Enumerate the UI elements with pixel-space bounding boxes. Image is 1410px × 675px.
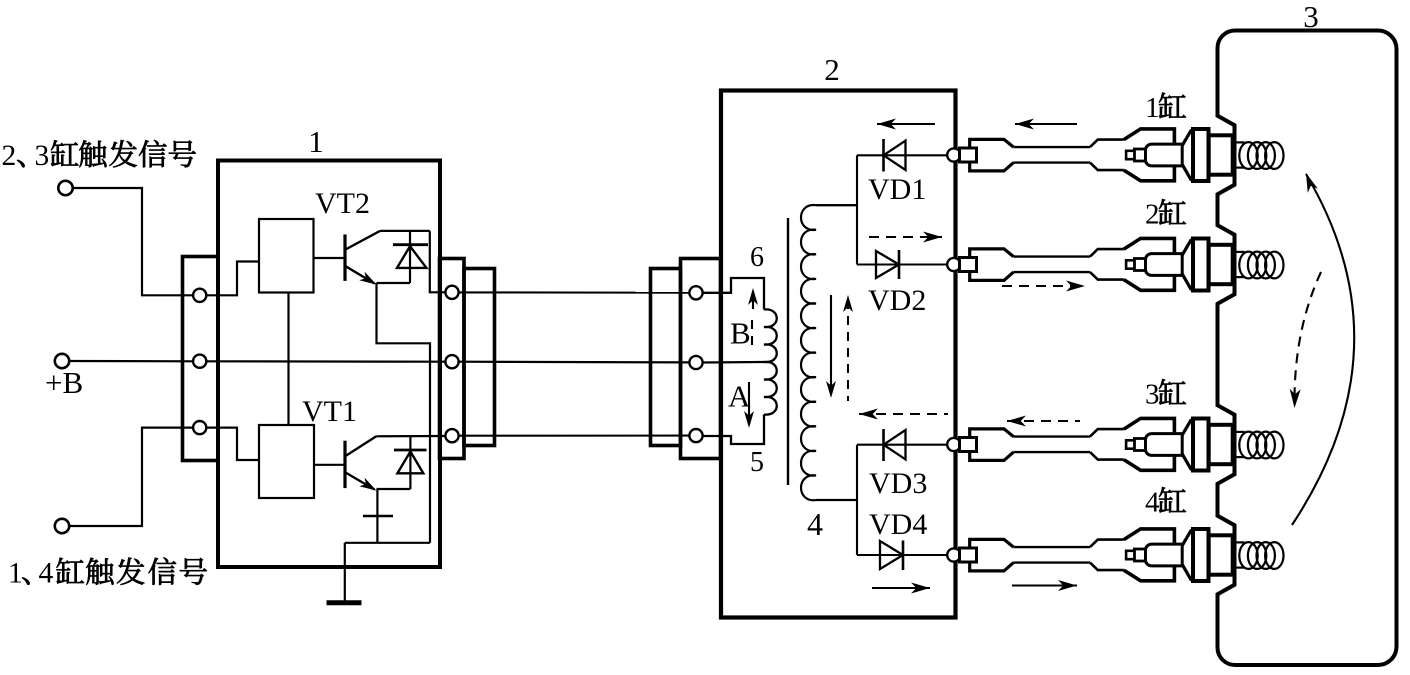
svg-text:3: 3 [35, 140, 50, 172]
HT cable boot coil side (cyl 3) [970, 429, 1014, 461]
HT cable (cyl 2) [1014, 255, 1091, 257]
HT cable (cyl 1) [1014, 146, 1091, 148]
svg-text:2: 2 [2, 140, 17, 172]
wire to ground [344, 543, 346, 601]
diode VD2 [898, 250, 901, 279]
svg-text:6: 6 [750, 242, 764, 273]
connector on left of block 1 [183, 257, 219, 461]
svg-text:B: B [730, 316, 751, 351]
spark plug seat washer (cyl 2) [1209, 245, 1233, 284]
spark plug boot (cyl 4) [1124, 529, 1175, 581]
spark plug insulator flare (cyl 4) [1182, 530, 1191, 581]
spark plug hex body (cyl 2) [1193, 239, 1209, 291]
spark plug terminal stem (cyl 1) [1145, 144, 1182, 166]
dashed segment below B arrow [751, 320, 753, 352]
primary winding: top lead [703, 278, 764, 310]
wire secondary bottom to VD junction [822, 499, 857, 501]
spring / thread symbol (cyl 2) [1235, 251, 1245, 253]
current arrow solid left (to VD1) [877, 123, 935, 125]
wire from 1,4 trigger terminal to connector pin 3 [69, 428, 194, 526]
transistor VT2 [343, 234, 346, 281]
current arrow on cable (cyl 2) [1002, 285, 1085, 287]
cable step (cyl 3) [1090, 429, 1124, 437]
terminal plug square (cyl 1) [960, 148, 977, 162]
current arrow on cable (cyl 4) [1012, 584, 1077, 586]
svg-text:3: 3 [1145, 379, 1160, 411]
current arrow on cable (cyl 1) [1015, 123, 1077, 125]
connector pair right of block 1 [440, 259, 465, 459]
spark plug terminal stem (cyl 2) [1145, 254, 1182, 276]
svg-text:4: 4 [807, 506, 823, 542]
svg-text:2: 2 [1145, 199, 1160, 231]
wire VT1 collector to pin [376, 435, 445, 437]
engine rotation arrow (solid arc) [1292, 174, 1354, 525]
diode across VT2 C-E [409, 231, 411, 283]
transistor VT1 [343, 441, 346, 488]
arrow down (A direction) [748, 382, 750, 424]
spark plug insulator flare (cyl 2) [1182, 239, 1191, 290]
secondary current arrow (dashed, up) [847, 300, 849, 401]
node: +B terminal [55, 354, 69, 368]
pin [689, 429, 702, 442]
current arrow dashed right (from VD2) [869, 236, 942, 238]
driver stage box (VT1) [259, 425, 314, 498]
spark plug hex body (cyl 4) [1193, 529, 1209, 581]
HT cable (cyl 3) [1014, 435, 1091, 437]
svg-text:1: 1 [1145, 92, 1160, 124]
current arrow dashed left (to VD3) [859, 413, 948, 415]
wire VD1 line [857, 154, 948, 156]
HT terminal on coil (cyl 2) [947, 258, 960, 271]
svg-text:3: 3 [1303, 0, 1319, 34]
svg-text:VD1: VD1 [868, 173, 926, 206]
spark plug insulator flare (cyl 3) [1182, 419, 1191, 470]
wire pin1 to VT2 driver [206, 262, 259, 296]
wire harness between connectors (3 wires) [459, 291, 690, 293]
diode VD1 [882, 139, 885, 172]
pin [445, 286, 458, 299]
current arrow solid right (from VD4) [872, 587, 930, 589]
wire VT1 emitter network [345, 489, 430, 543]
core line [787, 218, 789, 485]
primary winding: bottom lead [703, 415, 764, 445]
wire base VT1 [314, 464, 344, 466]
spark plug seat washer (cyl 4) [1209, 535, 1233, 574]
spark plug seat washer (cyl 3) [1209, 425, 1233, 464]
svg-text:VD2: VD2 [868, 284, 926, 317]
primary winding B (3 turns) [764, 309, 777, 362]
svg-text:4: 4 [1145, 487, 1160, 519]
node: trigger signal 1,4 terminal [55, 519, 69, 533]
svg-text:+B: +B [45, 365, 83, 400]
spark plug boot (cyl 1) [1124, 129, 1175, 181]
center tap wire [703, 361, 764, 364]
pin [445, 355, 458, 368]
cable step (cyl 4) [1090, 540, 1124, 548]
wire +B rail across block 1 [206, 360, 445, 363]
svg-text:5: 5 [750, 447, 764, 478]
spring / thread symbol (cyl 1) [1235, 141, 1245, 143]
pin [689, 356, 702, 369]
engine block 3 outline [1218, 31, 1397, 666]
spark plug hex body (cyl 1) [1193, 129, 1209, 181]
terminal plug square (cyl 4) [960, 548, 977, 562]
pin [445, 429, 458, 442]
cable step (cyl 2) [1090, 249, 1124, 257]
spark plug boot (cyl 2) [1124, 238, 1175, 290]
secondary current arrow (solid, down) [830, 295, 832, 393]
spark plug terminal stem (cyl 4) [1145, 544, 1182, 566]
ground [327, 600, 362, 605]
wire +B to connector pin 2 [69, 360, 194, 362]
HT terminal on coil (cyl 3) [947, 438, 960, 451]
wire pin3 to VT1 driver [206, 428, 259, 460]
sense element on VT1 emitter leg [363, 515, 393, 517]
node: trigger signal 2,3 terminal [58, 181, 72, 195]
diode across VT1 C-E [409, 436, 411, 489]
wire VD4 line [857, 554, 948, 556]
igniter unit block 1 [218, 161, 440, 568]
wire VD3 line [857, 444, 948, 446]
HT terminal on coil (cyl 1) [947, 148, 960, 161]
spark plug seat washer (cyl 1) [1209, 135, 1233, 174]
svg-text:VD3: VD3 [869, 467, 927, 500]
wire VD3-VD4 left vertical [856, 445, 858, 555]
HT cable (cyl 4) [1014, 546, 1091, 548]
wire VD1-VD2 left vertical [856, 155, 858, 264]
HT cable boot coil side (cyl 2) [970, 249, 1014, 281]
wire driver rail (box1 - +B - box2) [287, 293, 289, 426]
spark plug boot (cyl 3) [1124, 418, 1175, 470]
wire VD2 line [857, 263, 948, 265]
svg-text:4: 4 [39, 558, 54, 590]
spring / thread symbol (cyl 3) [1235, 431, 1245, 433]
secondary winding (12 turns) [801, 205, 857, 500]
wire secondary top to VD junction [816, 204, 857, 206]
spark plug hex body (cyl 3) [1193, 419, 1209, 471]
current arrow on cable (cyl 3) [1007, 420, 1080, 422]
svg-text:1: 1 [8, 558, 23, 590]
engine rotation arrow (dashed arc) [1294, 272, 1321, 404]
svg-text:A: A [728, 379, 751, 414]
svg-text:VT1: VT1 [302, 395, 357, 428]
svg-text:VT2: VT2 [315, 187, 370, 220]
cable step (cyl 1) [1090, 140, 1124, 148]
wire base VT2 [314, 257, 345, 259]
pin (1,4 in) [193, 421, 206, 434]
ignition coil block 2 [721, 91, 956, 618]
spark plug insulator flare (cyl 1) [1182, 130, 1191, 181]
diode VD4 [902, 541, 905, 571]
pin (+B in) [193, 355, 206, 368]
HT cable boot coil side (cyl 1) [970, 139, 1014, 171]
wire VT2 emitter network [377, 283, 431, 543]
connector pair left of block 2 [651, 269, 681, 446]
terminal plug square (cyl 3) [960, 438, 977, 452]
wire VT2 collector to pin [430, 231, 446, 292]
diode VD3 [882, 429, 885, 461]
HT cable boot coil side (cyl 4) [970, 539, 1014, 571]
emitter VT1 with arrow [346, 473, 375, 490]
svg-text:VD4: VD4 [869, 508, 927, 541]
arrow up (B direction) [752, 292, 754, 309]
driver stage box (VT2) [259, 219, 314, 293]
emitter VT2 with arrow [346, 266, 375, 283]
svg-text:2: 2 [824, 52, 840, 87]
HT terminal on coil (cyl 4) [947, 548, 960, 561]
spark plug terminal stem (cyl 3) [1145, 434, 1182, 456]
pin [689, 286, 702, 299]
svg-text:1: 1 [308, 124, 324, 159]
wire from 2,3 trigger terminal to connector pin 1 [73, 188, 194, 295]
terminal plug square (cyl 2) [960, 258, 977, 272]
primary winding A (3 turns) [764, 362, 777, 415]
pin (2,3 in) [193, 289, 206, 302]
spring / thread symbol (cyl 4) [1235, 541, 1245, 543]
